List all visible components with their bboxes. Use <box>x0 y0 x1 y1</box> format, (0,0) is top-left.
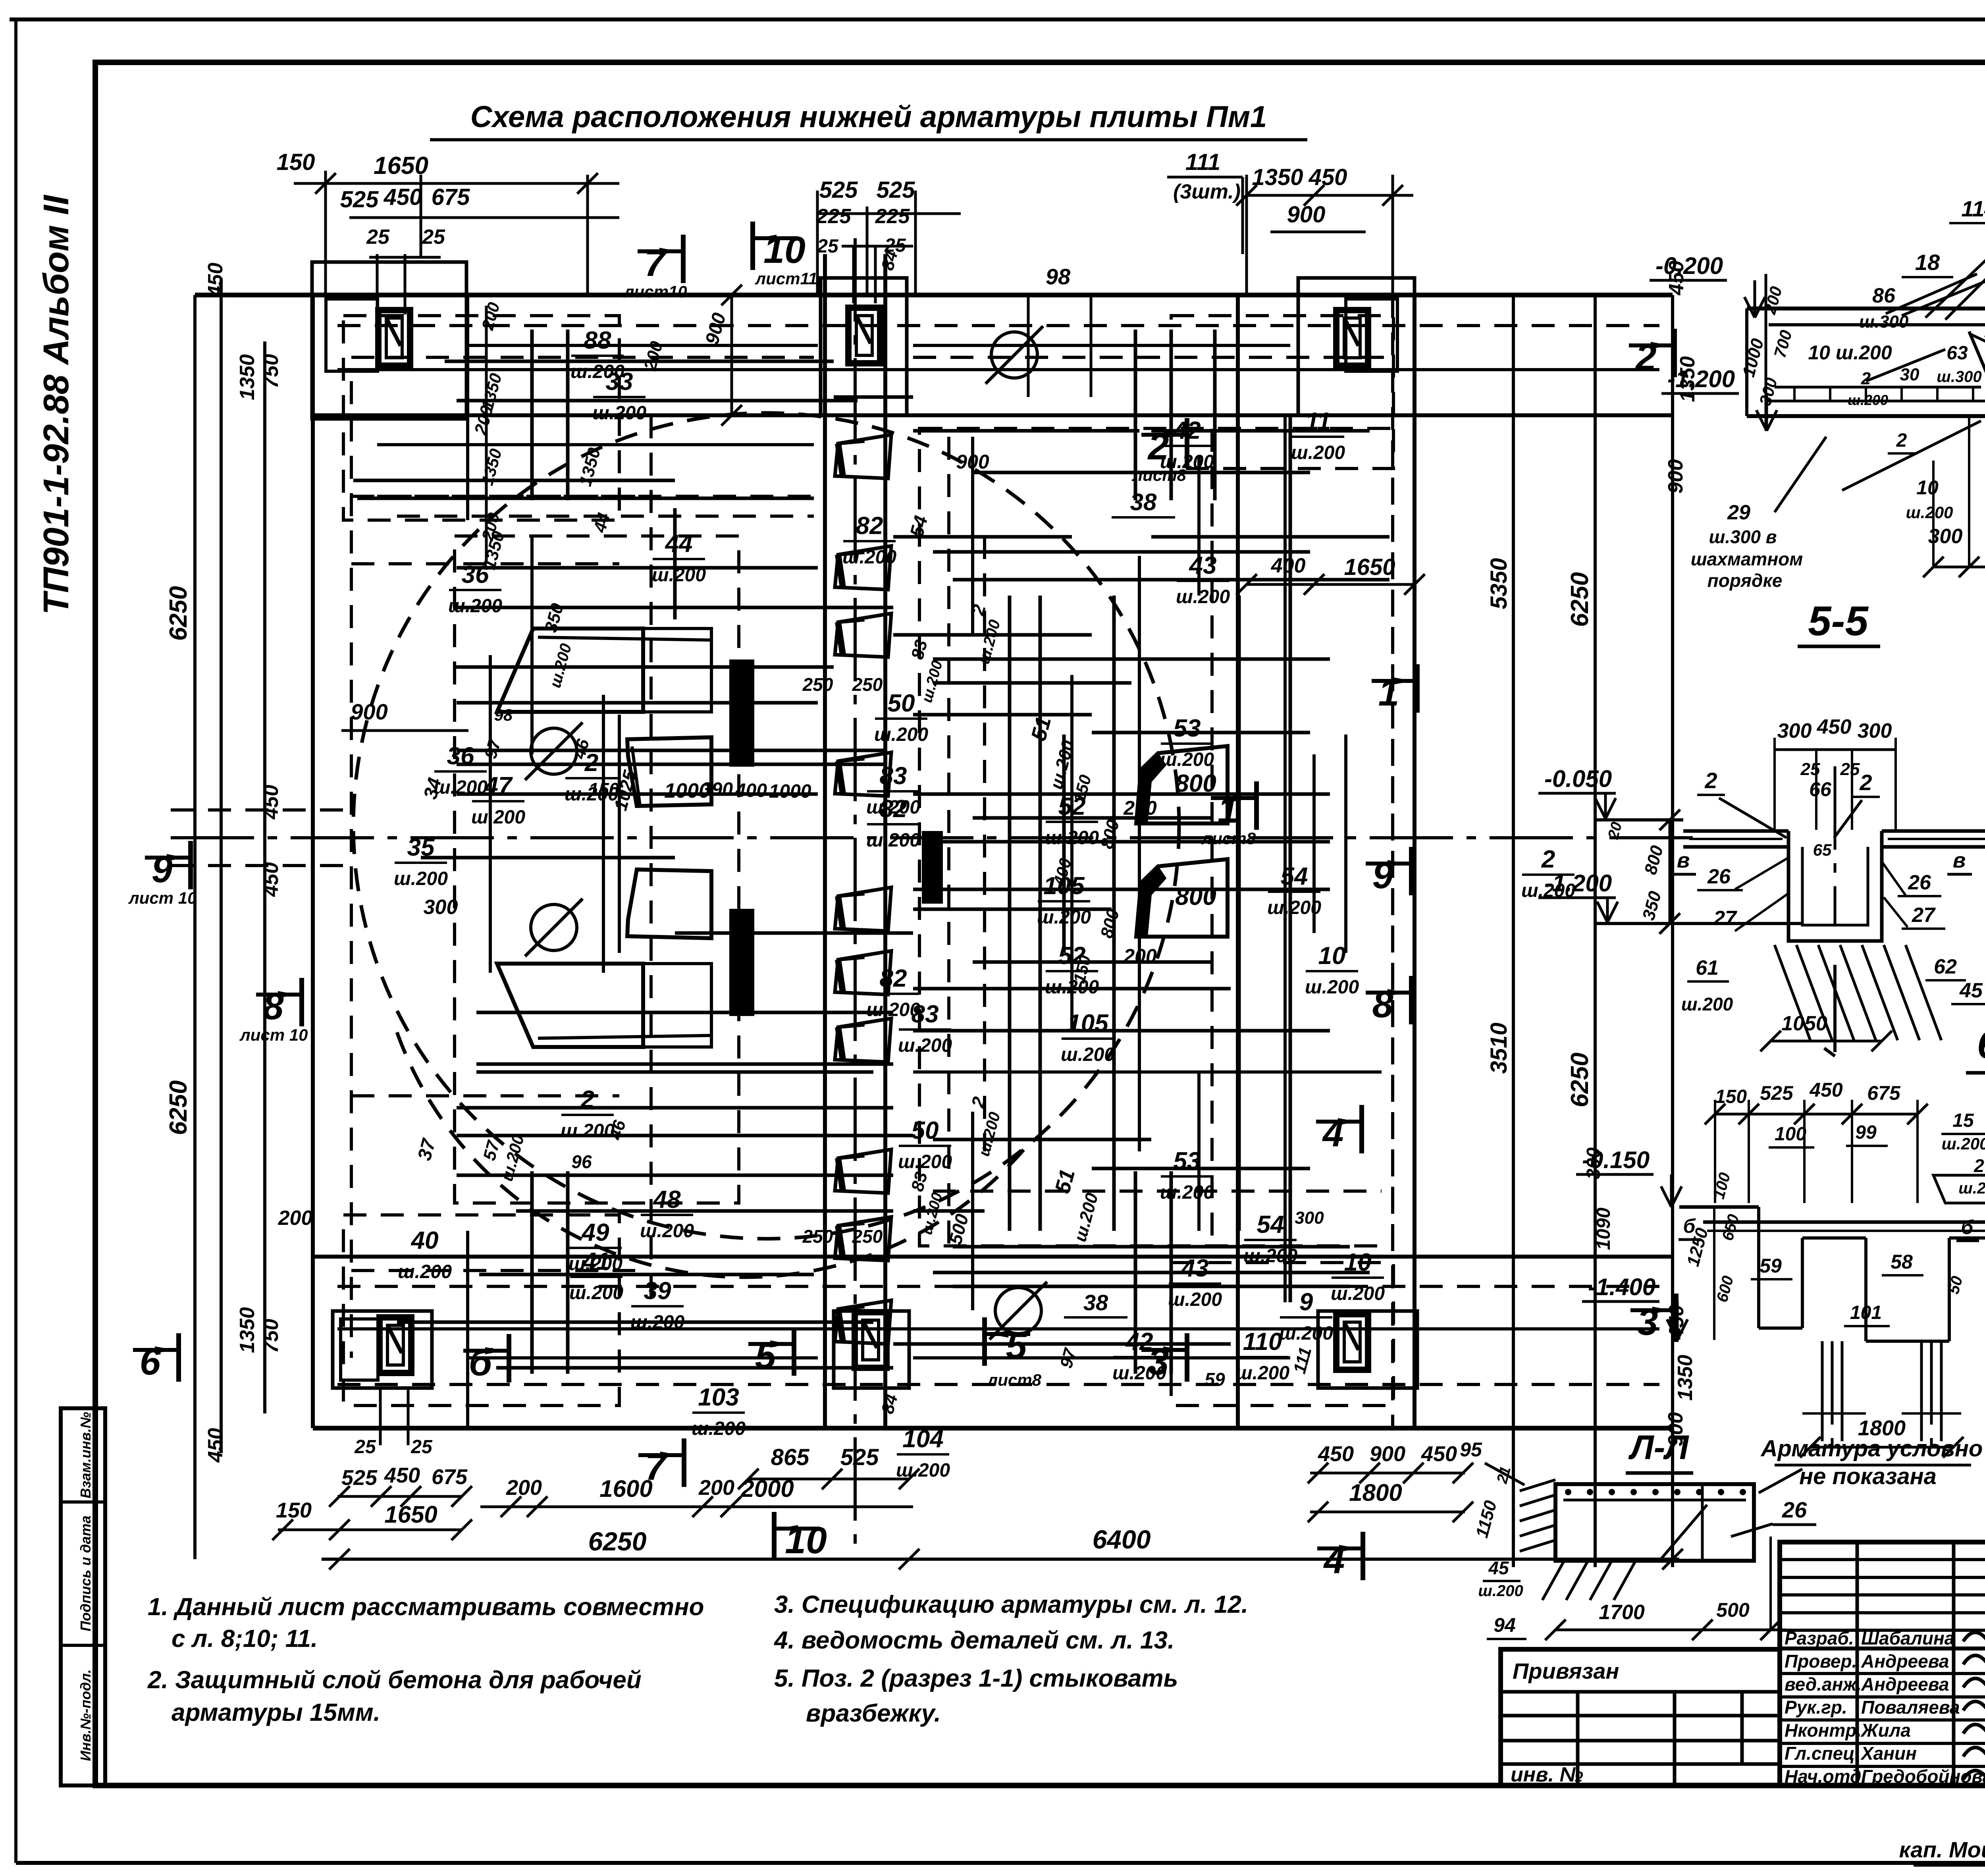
svg-text:Шабалина: Шабалина <box>1861 1628 1954 1648</box>
svg-text:38: 38 <box>1083 1290 1108 1315</box>
svg-text:Привязан: Привязан <box>1513 1658 1619 1683</box>
vertical rebar lines top band <box>530 330 534 500</box>
svg-text:53: 53 <box>1174 715 1201 742</box>
outer border <box>10 17 1985 21</box>
svg-text:58: 58 <box>1891 1251 1913 1273</box>
svg-text:1650: 1650 <box>1344 554 1395 580</box>
svg-text:Гл.спец.: Гл.спец. <box>1785 1743 1860 1764</box>
svg-text:450: 450 <box>1309 164 1347 190</box>
svg-text:8: 8 <box>1372 983 1393 1026</box>
L-L hatch <box>1520 1480 1555 1491</box>
svg-text:300: 300 <box>1777 719 1812 742</box>
svg-text:41: 41 <box>582 1248 610 1275</box>
svg-text:ш.300 в: ш.300 в <box>1709 526 1777 547</box>
svg-text:1350: 1350 <box>236 1307 259 1353</box>
vertical rebar lines bottom band <box>530 1171 534 1374</box>
svg-text:-1.400: -1.400 <box>1588 1274 1655 1300</box>
svg-text:50: 50 <box>888 690 915 717</box>
svg-text:2: 2 <box>580 1086 594 1113</box>
plan bottom edge <box>313 1426 1673 1431</box>
svg-text:101: 101 <box>1850 1302 1882 1323</box>
svg-text:ш.200: ш.200 <box>1235 1363 1289 1384</box>
svg-text:200: 200 <box>1123 797 1157 819</box>
plate right edge <box>1413 295 1416 1428</box>
svg-text:арматуры 15мм.: арматуры 15мм. <box>172 1699 380 1726</box>
svg-text:29: 29 <box>1727 501 1750 524</box>
svg-text:ш.200: ш.200 <box>1176 586 1230 607</box>
svg-text:ш.200: ш.200 <box>1681 994 1733 1014</box>
svg-text:300: 300 <box>424 896 458 919</box>
svg-text:675: 675 <box>1867 1082 1901 1104</box>
svg-text:1350: 1350 <box>1674 1355 1697 1401</box>
svg-text:27: 27 <box>1912 904 1936 927</box>
svg-text:150: 150 <box>276 1498 312 1522</box>
svg-text:10: 10 <box>1318 942 1346 970</box>
svg-text:105: 105 <box>1067 1010 1109 1037</box>
svg-text:525: 525 <box>341 1466 378 1490</box>
svg-text:5: 5 <box>755 1335 777 1377</box>
svg-text:54: 54 <box>1281 863 1308 890</box>
svg-text:в: в <box>1953 848 1966 872</box>
svg-text:6250: 6250 <box>1566 572 1594 627</box>
svg-text:2: 2 <box>1973 1155 1984 1176</box>
svg-text:900: 900 <box>1664 459 1687 494</box>
svg-text:5-5: 5-5 <box>1808 598 1869 644</box>
plan top band bottom edge <box>313 413 1673 417</box>
svg-text:10: 10 <box>1916 476 1939 499</box>
svg-text:53: 53 <box>1174 1147 1201 1175</box>
svg-text:36: 36 <box>447 742 474 770</box>
svg-text:390: 390 <box>701 779 733 800</box>
svg-text:9: 9 <box>1299 1288 1313 1316</box>
svg-text:-0.200: -0.200 <box>1655 253 1723 279</box>
svg-text:2: 2 <box>1704 768 1717 793</box>
svg-text:б: б <box>469 1342 493 1384</box>
svg-text:6: 6 <box>140 1341 161 1383</box>
svg-text:6250: 6250 <box>588 1527 647 1556</box>
svg-text:450: 450 <box>204 263 227 298</box>
svg-text:63: 63 <box>1946 343 1968 364</box>
svg-text:450: 450 <box>384 1463 420 1487</box>
left dimension verticals <box>193 295 197 1559</box>
svg-text:25: 25 <box>1840 760 1860 779</box>
svg-text:ТП901-1-92.88 Альбом II: ТП901-1-92.88 Альбом II <box>37 195 76 615</box>
svg-text:42: 42 <box>1173 417 1201 444</box>
svg-text:ш.200: ш.200 <box>569 1282 623 1303</box>
plate left edge <box>311 295 315 1428</box>
svg-text:-1.200: -1.200 <box>1667 366 1735 392</box>
svg-text:ш.200: ш.200 <box>398 1261 452 1282</box>
section 4-4 leaders <box>1886 274 1977 314</box>
svg-text:2: 2 <box>1896 430 1907 451</box>
svg-text:ш.200: ш.200 <box>448 596 502 617</box>
svg-text:25: 25 <box>817 236 839 257</box>
svg-text:25: 25 <box>354 1436 376 1458</box>
crossed circle mid-left lower <box>531 904 577 951</box>
corner window top-right <box>1336 310 1368 366</box>
svg-text:вед.анж.: вед.анж. <box>1785 1674 1862 1695</box>
svg-text:ш.200: ш.200 <box>1061 1044 1115 1065</box>
svg-text:Л-Л: Л-Л <box>1628 1429 1690 1467</box>
corner block notches <box>326 299 378 371</box>
svg-text:Нконтр.: Нконтр. <box>1785 1720 1862 1741</box>
svg-text:525: 525 <box>840 1444 879 1470</box>
svg-text:ш.200: ш.200 <box>630 1312 684 1333</box>
svg-text:450: 450 <box>1809 1079 1843 1101</box>
svg-text:1800: 1800 <box>1349 1479 1402 1506</box>
inner dashed rectangles <box>343 316 619 520</box>
crossed circle bottom <box>995 1288 1041 1334</box>
svg-text:900: 900 <box>1287 202 1326 228</box>
svg-text:4: 4 <box>1323 1539 1345 1581</box>
svg-text:1: 1 <box>1218 789 1239 831</box>
svg-text:6-6: 6-6 <box>1977 1022 1985 1067</box>
svg-text:500: 500 <box>1716 1599 1750 1621</box>
right dimension verticals <box>1512 295 1515 1567</box>
wing bar lower upper-right rect <box>627 870 711 938</box>
svg-text:96: 96 <box>571 1151 592 1172</box>
wing bar upper lower-right rect <box>627 737 711 806</box>
svg-text:10: 10 <box>785 1519 827 1562</box>
extra interior lines <box>377 443 814 446</box>
plan top band inner line <box>337 368 1659 371</box>
svg-text:ш.200: ш.200 <box>1305 977 1359 998</box>
svg-text:лист10: лист10 <box>623 282 687 301</box>
wing bar lower <box>497 964 643 1047</box>
svg-text:1350: 1350 <box>236 354 259 400</box>
svg-text:2000: 2000 <box>740 1475 794 1502</box>
svg-text:2: 2 <box>1859 770 1872 795</box>
svg-text:Подпись и дата: Подпись и дата <box>77 1515 94 1631</box>
svg-text:400: 400 <box>1271 554 1306 577</box>
svg-text:450: 450 <box>204 1428 227 1463</box>
horizontal rebar lines <box>445 360 834 363</box>
svg-text:9: 9 <box>152 848 173 891</box>
svg-text:150: 150 <box>277 149 315 175</box>
svg-text:в: в <box>1677 848 1690 872</box>
svg-text:100: 100 <box>1775 1124 1806 1145</box>
svg-text:26: 26 <box>1707 865 1731 888</box>
svg-text:48: 48 <box>653 1186 681 1213</box>
svg-text:94: 94 <box>1494 1614 1516 1636</box>
corner window bottom-left <box>380 1317 411 1373</box>
svg-text:54: 54 <box>1257 1211 1284 1238</box>
svg-text:27: 27 <box>1713 907 1737 930</box>
svg-text:110: 110 <box>1243 1328 1282 1355</box>
vertical rebar lines middle <box>673 508 677 619</box>
svg-text:7: 7 <box>644 242 667 284</box>
svg-text:43: 43 <box>1189 552 1217 579</box>
svg-text:250: 250 <box>802 674 833 695</box>
svg-text:98: 98 <box>494 706 513 724</box>
svg-text:900: 900 <box>956 451 989 473</box>
svg-text:525: 525 <box>340 187 379 212</box>
left dashed vertical <box>350 381 353 1358</box>
section 4-4 slab rebar lines <box>1767 400 1985 403</box>
svg-text:15: 15 <box>1952 1110 1974 1131</box>
svg-text:инв. №: инв. № <box>1511 1763 1583 1786</box>
svg-text:ш.200: ш.200 <box>1941 1134 1985 1153</box>
svg-text:104: 104 <box>902 1425 943 1453</box>
svg-text:525: 525 <box>877 177 915 203</box>
svg-text:450: 450 <box>1817 715 1852 738</box>
svg-text:ш.200: ш.200 <box>692 1418 746 1439</box>
svg-text:5350: 5350 <box>1486 558 1512 609</box>
svg-text:лист8: лист8 <box>1201 829 1256 848</box>
svg-text:ш.200: ш.200 <box>1112 1363 1166 1384</box>
hook bars dark <box>731 661 752 765</box>
svg-text:1: 1 <box>1378 672 1399 714</box>
svg-text:Андреева: Андреева <box>1861 1674 1949 1695</box>
section 5-5 vert dims <box>1669 820 1671 924</box>
svg-text:-0.150: -0.150 <box>1582 1147 1650 1173</box>
svg-text:6250: 6250 <box>165 1080 192 1135</box>
svg-text:103: 103 <box>698 1384 739 1411</box>
svg-text:750: 750 <box>260 1319 283 1353</box>
svg-text:675: 675 <box>432 184 470 210</box>
right inner vertical 2 <box>1284 415 1287 1302</box>
svg-text:111: 111 <box>1185 149 1220 175</box>
corner hook 800 lower <box>1136 859 1228 937</box>
svg-text:ш.200: ш.200 <box>874 724 928 745</box>
svg-text:900: 900 <box>1370 1442 1405 1466</box>
svg-text:88: 88 <box>584 327 611 354</box>
svg-text:38: 38 <box>1130 489 1157 515</box>
section 6-6 pillars <box>1821 1341 1824 1441</box>
section 4-4 slab <box>1747 307 1985 310</box>
svg-text:30: 30 <box>1900 365 1919 384</box>
svg-text:10: 10 <box>1344 1249 1372 1276</box>
svg-text:83: 83 <box>912 1001 939 1028</box>
svg-text:39: 39 <box>644 1277 671 1305</box>
inner dashed arc <box>397 1032 1032 1277</box>
svg-text:(3шт.): (3шт.) <box>1173 180 1241 203</box>
svg-text:1700: 1700 <box>1599 1601 1645 1624</box>
svg-text:ш.200: ш.200 <box>842 547 896 568</box>
svg-text:Инв.№-подл.: Инв.№-подл. <box>77 1669 94 1761</box>
svg-text:Разраб.: Разраб. <box>1785 1628 1854 1648</box>
svg-text:6250: 6250 <box>165 586 192 641</box>
privyazan table <box>1501 1649 1780 1785</box>
svg-text:ш.200: ш.200 <box>1331 1283 1385 1304</box>
svg-text:порядке: порядке <box>1707 570 1783 591</box>
crossed circle mid-left upper <box>531 728 577 774</box>
svg-text:не показана: не показана <box>1799 1463 1937 1489</box>
svg-text:300: 300 <box>1858 719 1892 742</box>
svg-text:82: 82 <box>880 795 907 823</box>
plan center vertical line <box>854 238 857 1548</box>
svg-text:59: 59 <box>1760 1255 1782 1277</box>
svg-text:2: 2 <box>1635 336 1657 378</box>
svg-text:ш.200: ш.200 <box>1045 827 1099 848</box>
plan center line <box>171 836 1695 839</box>
svg-text:ш.200: ш.200 <box>866 830 920 851</box>
right dashed verticals <box>1210 429 1214 1247</box>
svg-text:5. Поз. 2 (разрез 1-1) стыкова: 5. Поз. 2 (разрез 1-1) стыковать <box>774 1665 1178 1692</box>
svg-text:200: 200 <box>1123 945 1157 967</box>
svg-text:25: 25 <box>422 226 445 249</box>
svg-text:225: 225 <box>875 205 910 228</box>
svg-text:ш.200: ш.200 <box>1478 1582 1523 1600</box>
svg-text:Провер.: Провер. <box>1785 1651 1857 1672</box>
svg-text:42: 42 <box>1125 1328 1153 1355</box>
svg-text:66: 66 <box>1809 778 1832 800</box>
svg-text:300: 300 <box>1295 1208 1324 1228</box>
svg-text:10 ш.200: 10 ш.200 <box>1808 341 1892 364</box>
svg-text:ш.200: ш.200 <box>1848 392 1888 408</box>
svg-text:лист 10: лист 10 <box>239 1026 308 1044</box>
svg-text:7: 7 <box>645 1446 668 1488</box>
svg-text:Схема расположения нижней а: Схема расположения нижней арматуры плиты… <box>470 100 1267 134</box>
svg-text:ш.200: ш.200 <box>1037 907 1091 928</box>
svg-text:25: 25 <box>410 1436 433 1458</box>
main stamp table <box>1780 1542 1985 1785</box>
svg-text:6400: 6400 <box>1093 1525 1151 1554</box>
svg-text:250: 250 <box>802 1226 833 1247</box>
svg-text:450: 450 <box>260 862 283 897</box>
svg-text:Поваляева: Поваляева <box>1861 1697 1960 1718</box>
svg-text:25: 25 <box>366 226 390 249</box>
svg-text:750: 750 <box>260 354 283 389</box>
svg-text:450: 450 <box>1421 1442 1457 1466</box>
svg-text:1350: 1350 <box>1252 164 1303 190</box>
svg-text:150: 150 <box>1715 1086 1747 1107</box>
svg-text:ш.200: ш.200 <box>896 1460 950 1481</box>
svg-text:50: 50 <box>912 1117 939 1144</box>
svg-text:вразбежку.: вразбежку. <box>806 1700 941 1727</box>
svg-text:44: 44 <box>665 530 693 557</box>
svg-text:49: 49 <box>581 1219 609 1246</box>
right inner wall vertical <box>1236 295 1240 1428</box>
svg-text:ш.200: ш.200 <box>1168 1289 1222 1310</box>
svg-text:Нач.отд.: Нач.отд. <box>1785 1766 1866 1787</box>
svg-text:ш.200: ш.200 <box>898 1035 952 1056</box>
svg-text:ш.200: ш.200 <box>471 807 525 828</box>
corner hook 800 upper <box>1136 746 1228 823</box>
large dashed circle <box>353 413 1179 1239</box>
svg-text:ш.200: ш.200 <box>1291 442 1345 463</box>
svg-text:ш.200: ш.200 <box>592 403 646 424</box>
svg-text:525: 525 <box>1760 1082 1794 1104</box>
svg-text:1050: 1050 <box>1781 1012 1827 1035</box>
svg-text:450: 450 <box>260 785 283 820</box>
svg-text:ш.200: ш.200 <box>1906 503 1953 522</box>
svg-text:Андреева: Андреева <box>1861 1651 1949 1672</box>
svg-text:Жила: Жила <box>1860 1720 1911 1741</box>
svg-text:800: 800 <box>1175 883 1216 910</box>
svg-text:ш.200: ш.200 <box>394 868 448 889</box>
svg-text:26: 26 <box>1782 1497 1807 1522</box>
svg-text:865: 865 <box>771 1444 810 1470</box>
svg-text:-0.050: -0.050 <box>1544 765 1612 792</box>
svg-text:6250: 6250 <box>1566 1053 1594 1107</box>
svg-text:83: 83 <box>880 762 907 790</box>
svg-text:82: 82 <box>880 965 907 992</box>
svg-text:3510: 3510 <box>1486 1022 1512 1074</box>
top band lines <box>337 324 1659 327</box>
svg-text:Ханин: Ханин <box>1860 1743 1917 1764</box>
svg-text:95: 95 <box>1460 1438 1482 1461</box>
corner column verticals <box>466 295 469 520</box>
corner window bottom-right <box>1336 1314 1368 1370</box>
plan top edge <box>195 293 1673 297</box>
svg-text:26: 26 <box>1908 871 1931 894</box>
svg-text:114: 114 <box>1961 196 1985 221</box>
dashed horizontal band lines <box>351 356 814 359</box>
plan bottom band top edge <box>313 1255 1673 1259</box>
svg-text:ш.200: ш.200 <box>1958 1180 1985 1197</box>
section 5-5 slab <box>1683 829 1788 833</box>
svg-text:4. ведомость деталей см. л. 13: 4. ведомость деталей см. л. 13. <box>773 1627 1174 1654</box>
svg-text:45: 45 <box>1488 1558 1509 1578</box>
left stamp column <box>61 1408 105 1785</box>
svg-text:ш.300: ш.300 <box>1859 312 1909 332</box>
section 5-5 pocket <box>1788 831 1882 941</box>
section cut markers <box>638 249 683 253</box>
svg-text:Арматура условно: Арматура условно <box>1760 1436 1983 1461</box>
rebar hooks central strip <box>835 435 891 478</box>
section 4-4 left vert dims <box>1765 274 1767 431</box>
svg-text:2: 2 <box>1861 369 1871 388</box>
svg-text:10: 10 <box>763 229 806 271</box>
svg-text:лист8: лист8 <box>987 1371 1041 1389</box>
corner window top-center <box>848 308 880 363</box>
svg-text:1000: 1000 <box>769 781 811 802</box>
svg-text:4: 4 <box>1322 1112 1344 1155</box>
svg-text:1090: 1090 <box>1593 1207 1614 1250</box>
section 5-5 hatch <box>1775 945 1810 1040</box>
svg-text:18: 18 <box>1915 250 1940 275</box>
svg-text:98: 98 <box>1046 264 1071 289</box>
svg-text:450: 450 <box>384 184 422 210</box>
svg-text:Рук.гр.: Рук.гр. <box>1785 1697 1847 1718</box>
svg-text:43: 43 <box>1181 1255 1209 1282</box>
svg-text:9: 9 <box>1372 854 1393 897</box>
central strip verticals <box>823 254 827 1428</box>
svg-text:450: 450 <box>1318 1442 1354 1466</box>
svg-text:59: 59 <box>1204 1369 1225 1390</box>
svg-text:лист11: лист11 <box>755 269 817 288</box>
svg-text:35: 35 <box>407 834 435 861</box>
svg-text:11: 11 <box>1305 408 1331 435</box>
svg-text:ш.200: ш.200 <box>1279 1323 1333 1344</box>
svg-text:ш.200: ш.200 <box>640 1220 694 1242</box>
svg-text:2. Защитный слой бетона для ра: 2. Защитный слой бетона для рабочей <box>147 1666 642 1694</box>
svg-text:2: 2 <box>1541 846 1555 873</box>
svg-text:200: 200 <box>698 1476 734 1500</box>
svg-text:82: 82 <box>856 512 883 540</box>
svg-text:525: 525 <box>819 177 858 203</box>
svg-text:шахматном: шахматном <box>1691 549 1803 569</box>
svg-text:900: 900 <box>351 699 387 724</box>
svg-text:62: 62 <box>1934 955 1957 978</box>
svg-text:250: 250 <box>852 1226 883 1247</box>
svg-text:225: 225 <box>816 205 852 228</box>
svg-text:3: 3 <box>1637 1301 1658 1343</box>
svg-text:86: 86 <box>1872 284 1896 307</box>
svg-text:ш.200: ш.200 <box>561 1120 615 1141</box>
svg-text:-1.200: -1.200 <box>1544 870 1612 897</box>
L-L box <box>1555 1484 1754 1561</box>
corner block outlines <box>312 262 466 419</box>
svg-text:61: 61 <box>1696 956 1719 979</box>
svg-text:8: 8 <box>263 985 284 1028</box>
svg-text:99: 99 <box>1855 1122 1877 1143</box>
svg-text:33: 33 <box>606 368 633 395</box>
corner window top-left <box>378 310 410 366</box>
svg-text:200: 200 <box>278 1207 313 1230</box>
svg-text:ш.200: ш.200 <box>1160 1182 1214 1203</box>
